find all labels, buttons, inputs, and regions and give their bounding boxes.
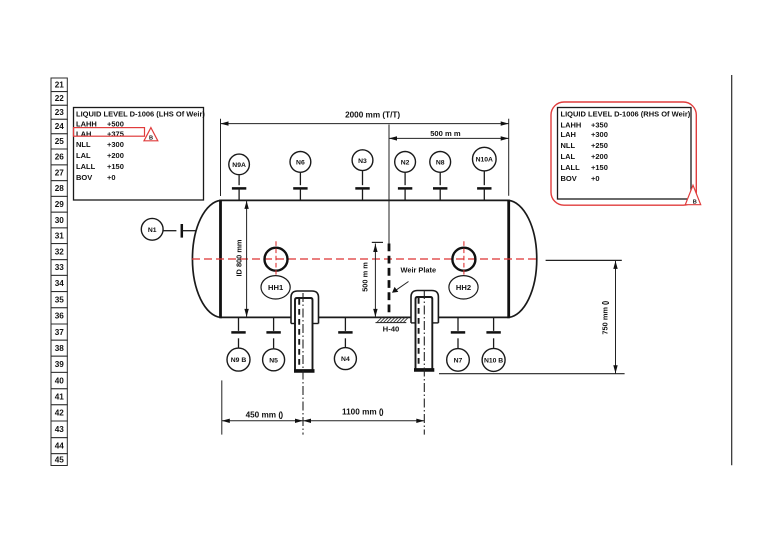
nozzle N5 [263,317,285,370]
svg-text:N3: N3 [358,158,367,165]
svg-text:Weir Plate: Weir Plate [401,266,437,275]
svg-text:+375: +375 [107,129,124,138]
svg-text:31: 31 [55,231,65,240]
svg-text:34: 34 [55,279,65,288]
svg-text:40: 40 [55,376,65,385]
svg-text:B: B [693,199,697,205]
dimension 500 mm weir height [361,242,383,317]
svg-text:36: 36 [55,312,65,321]
right elliptical head [509,200,537,317]
svg-text:LAL: LAL [76,151,91,160]
LHS liquid level table box [74,108,204,201]
svg-text:+150: +150 [107,162,124,171]
svg-text:HH1: HH1 [268,283,284,292]
revision highlight box on LAH row [74,128,145,137]
svg-text:NLL: NLL [561,141,576,150]
svg-text:500 m m: 500 m m [361,262,370,292]
nozzle N10A [473,147,497,200]
svg-text:LAHH: LAHH [561,120,582,129]
support leg left boot bottom caps [291,323,319,325]
svg-text:N6: N6 [296,160,305,167]
manhole HH2 circle [452,248,475,271]
svg-text:N1: N1 [148,227,157,234]
nozzle N4 [334,317,356,369]
svg-text:1100 mm (): 1100 mm () [342,408,384,417]
drawing frame right border line [731,75,733,465]
support leg right base plate [414,368,434,372]
svg-text:H-40: H-40 [383,324,400,333]
support leg right inner column [416,297,433,370]
dimension 500 mm (weir to RH tangent) [389,125,509,244]
svg-text:43: 43 [55,425,65,434]
svg-text:N8: N8 [436,160,445,167]
svg-text:NLL: NLL [76,140,91,149]
svg-text:LIQUID LEVEL D-1006 (LHS Of We: LIQUID LEVEL D-1006 (LHS Of Weir) [76,109,205,118]
RHS liquid level table box [558,108,692,200]
svg-text:+200: +200 [591,152,608,161]
svg-text:+300: +300 [591,130,608,139]
svg-text:LIQUID LEVEL D-1006 (RHS Of We: LIQUID LEVEL D-1006 (RHS Of Weir) [561,110,691,119]
svg-text:BOV: BOV [76,173,92,182]
dimension 450 mm bottom [222,380,303,434]
revision triangle B (LHS) [144,128,158,142]
weir plate dashed line [388,244,391,318]
support leg right centerline [423,290,425,435]
svg-text:N7: N7 [454,358,463,365]
support leg left base plate [294,369,315,373]
svg-text:HH2: HH2 [456,283,471,292]
nozzle N10B [482,317,505,371]
svg-text:25: 25 [55,137,65,146]
svg-text:LAL: LAL [561,152,576,161]
svg-text:35: 35 [55,295,65,304]
support leg right boot bottom caps [411,322,438,324]
right tangent line [507,200,510,319]
nozzle N7 [447,317,470,371]
svg-text:ID 800 mm: ID 800 mm [234,239,243,276]
revision triangle B (RHS) [685,185,700,205]
support leg left centerline [302,293,304,435]
svg-text:28: 28 [55,184,65,193]
red vessel centerline [192,258,537,260]
manhole HH1 circle [265,248,288,271]
support leg left outer boot [291,291,319,324]
svg-text:BOV: BOV [561,174,577,183]
svg-text:22: 22 [55,94,65,103]
dimension 1100 mm bottom [303,408,424,423]
support leg right outer boot [411,291,438,323]
vessel shell bottom line (segments between supports) [221,316,509,318]
nozzle N8 [430,152,451,201]
manhole label HH2 [449,276,478,299]
svg-text:+0: +0 [591,174,600,183]
support leg right hidden dashed line [418,298,420,368]
svg-text:33: 33 [55,263,65,272]
nozzle N1 [141,218,195,240]
svg-text:LALL: LALL [561,163,581,172]
svg-text:30: 30 [55,216,65,225]
svg-text:+300: +300 [107,140,124,149]
svg-text:38: 38 [55,344,65,353]
svg-text:45: 45 [55,455,65,464]
svg-text:450 mm (): 450 mm () [246,410,284,419]
manhole HH1 red crosshair [275,241,277,274]
svg-text:44: 44 [55,441,65,450]
nozzle N9B [227,317,250,371]
svg-text:+350: +350 [591,120,608,129]
svg-text:39: 39 [55,360,65,369]
svg-text:27: 27 [55,169,65,178]
nozzle N2 [395,152,416,201]
svg-text:N10 B: N10 B [484,358,503,365]
svg-text:37: 37 [55,328,65,337]
svg-text:23: 23 [55,108,65,117]
svg-text:+0: +0 [107,173,116,182]
svg-text:41: 41 [55,393,65,402]
svg-text:N9 B: N9 B [231,357,247,364]
svg-text:N5: N5 [269,357,278,364]
vessel shell top line [221,199,509,201]
nozzle N9A [229,154,250,200]
svg-text:32: 32 [55,247,65,256]
nozzle N3 [352,150,373,201]
nozzle N6 [290,152,311,201]
svg-text:LALL: LALL [76,162,96,171]
svg-text:+150: +150 [591,163,608,172]
dimension 750 mm right side [439,260,625,373]
left tangent line [219,200,222,319]
svg-text:24: 24 [55,122,65,131]
dimension 2000 mm T/T [221,111,509,197]
svg-text:29: 29 [55,200,65,209]
revision cloud around RHS table [551,102,696,205]
svg-text:750 mm (): 750 mm () [601,300,610,334]
spreadsheet row-number column rows 21-45 [51,78,67,466]
svg-text:+200: +200 [107,151,124,160]
RHS table text [561,110,691,183]
svg-text:42: 42 [55,409,65,418]
svg-text:LAH: LAH [76,129,91,138]
manhole HH2 red crosshair [463,241,465,274]
svg-text:21: 21 [55,81,65,90]
weir plate leader arrow [392,282,409,293]
svg-text:N2: N2 [401,160,410,167]
svg-text:500 m m: 500 m m [430,129,461,138]
svg-text:LAH: LAH [561,130,576,139]
support leg left hidden dashed line [298,299,300,369]
svg-text:+250: +250 [591,141,608,150]
support leg left inner column [295,298,313,371]
manhole label HH1 [261,276,290,299]
left elliptical head [192,200,220,317]
svg-text:2000 mm (T/T): 2000 mm (T/T) [345,111,400,120]
svg-text:26: 26 [55,153,65,162]
svg-text:N9A: N9A [232,162,246,169]
svg-text:N10A: N10A [476,157,493,164]
dimension ID 800 mm [234,200,249,317]
svg-text:N4: N4 [341,356,350,363]
svg-text:B: B [149,136,153,142]
LHS table text [76,109,205,182]
H-40 hatch symbol [376,318,409,323]
